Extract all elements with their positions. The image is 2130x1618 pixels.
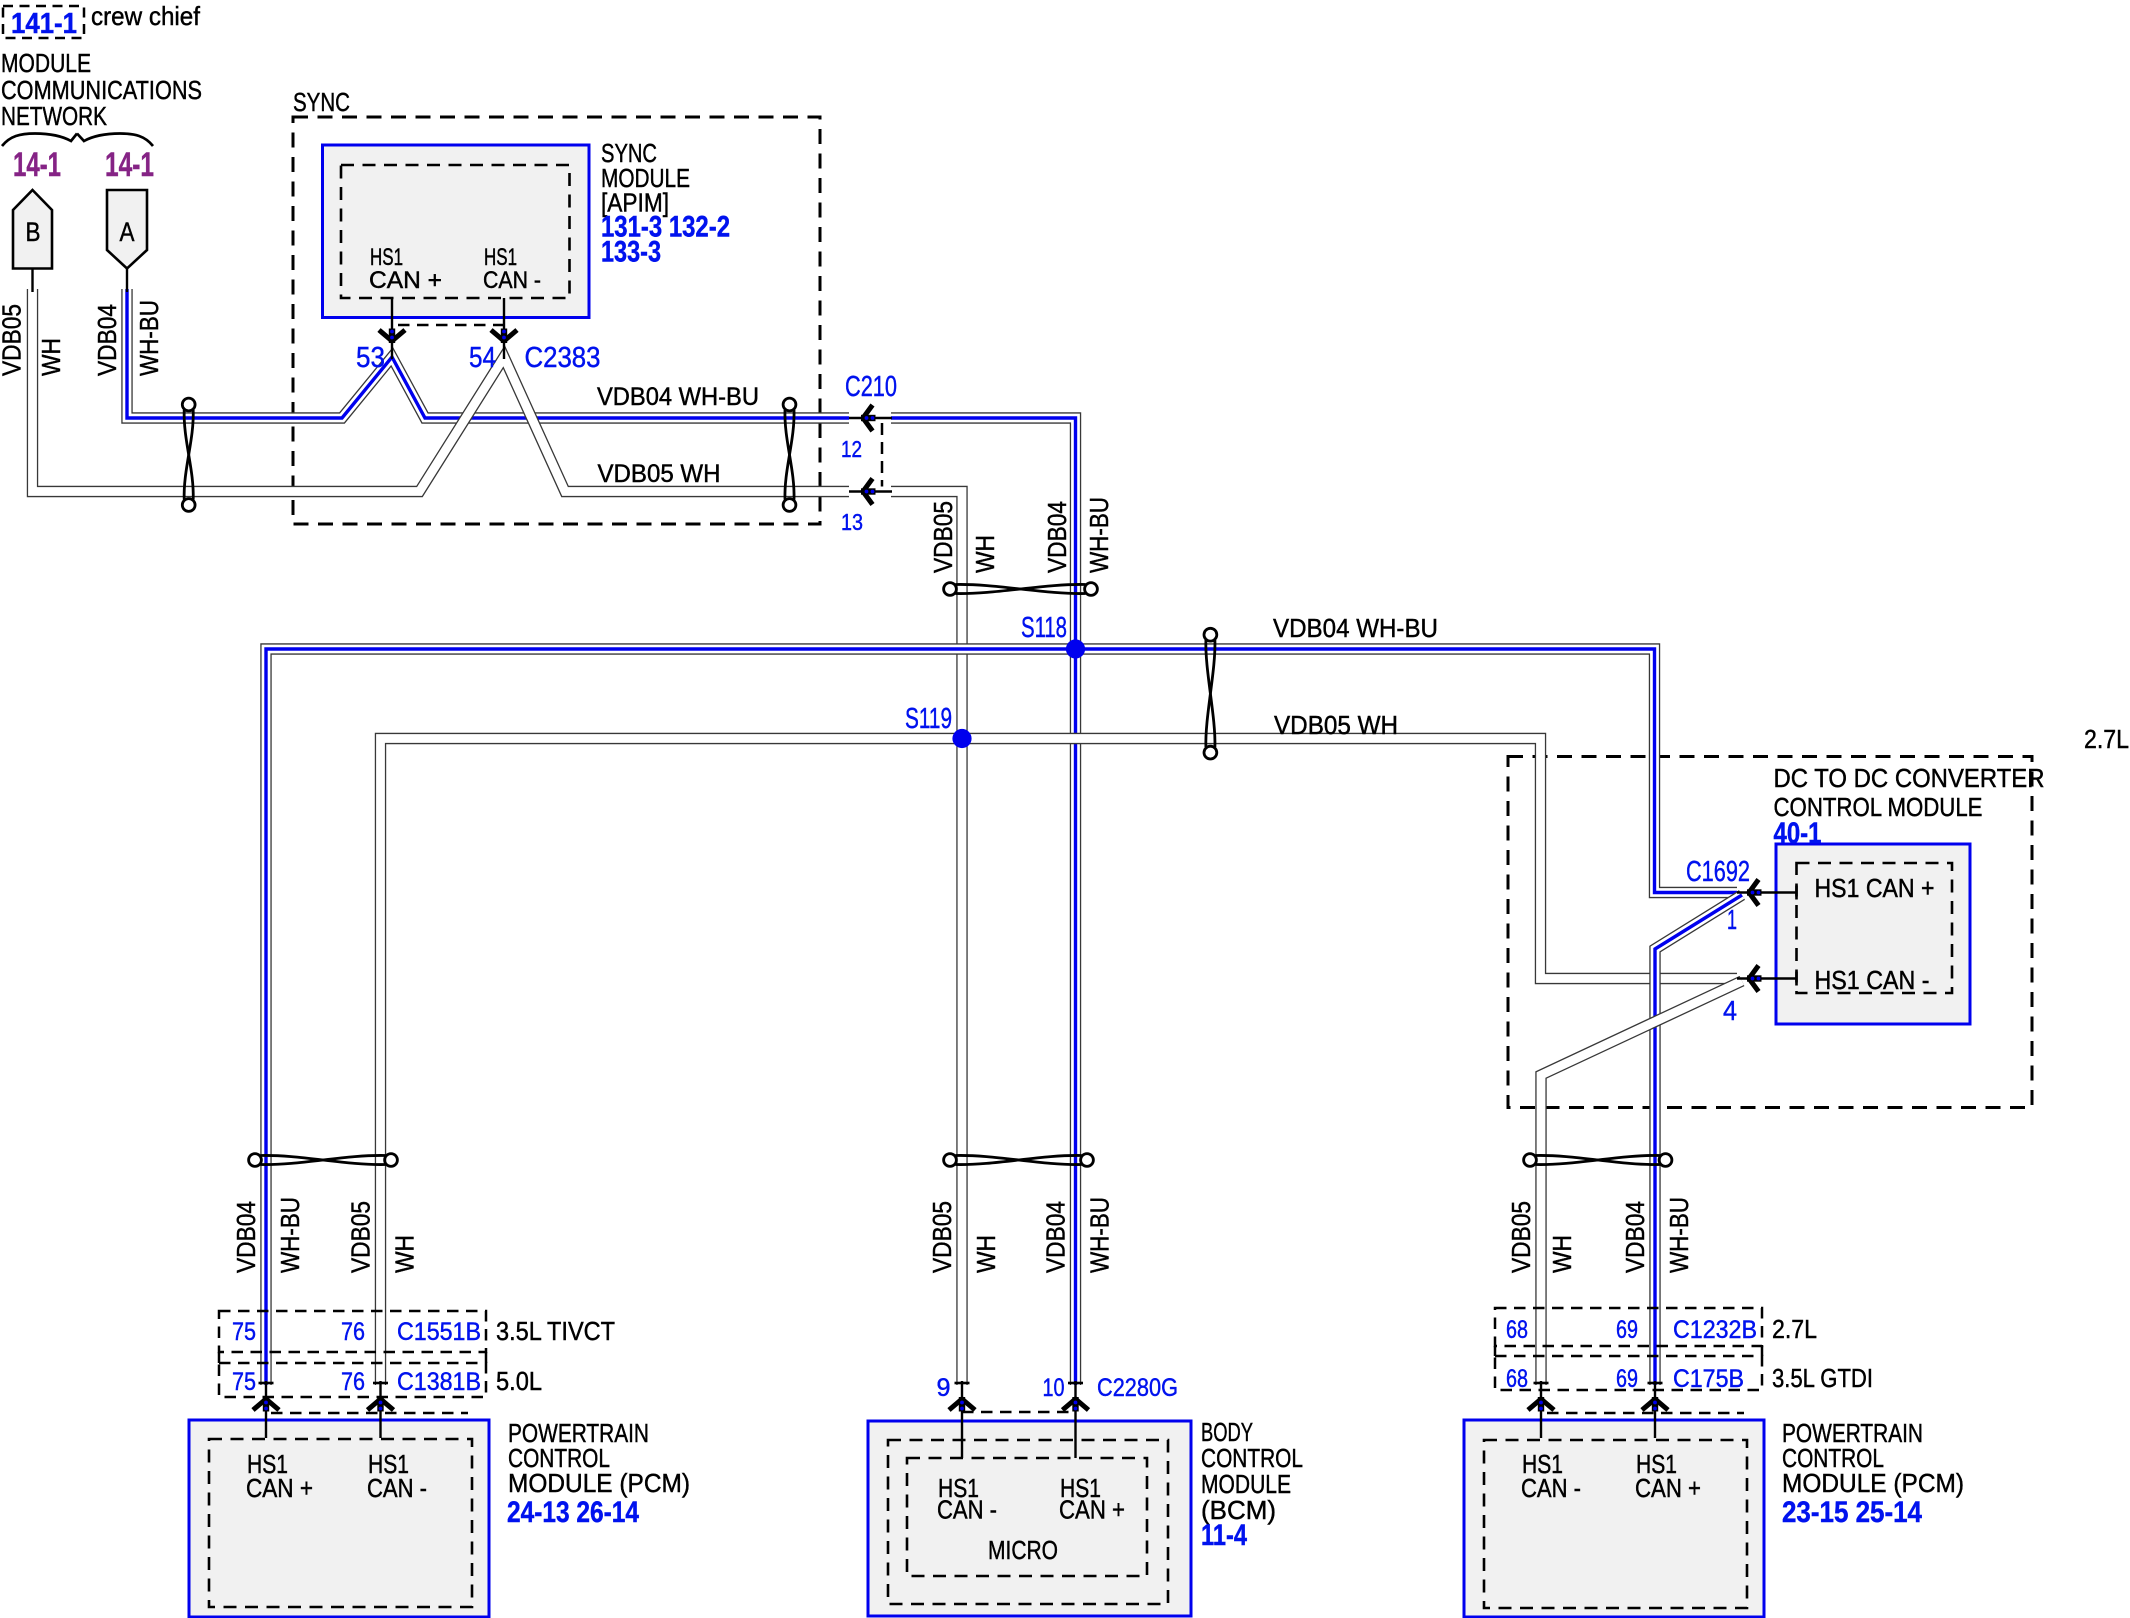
svg-text:WH: WH (971, 1235, 1001, 1273)
C210 pin 13 arrow (861, 479, 876, 505)
svg-text:11-4: 11-4 (1201, 1519, 1247, 1552)
C2383 pin 54 arrow (491, 329, 517, 344)
svg-text:CAN +: CAN + (369, 267, 442, 294)
wire VDB05 WH bus from PCM left pin 76 through S119 to C1692 pin 4 (381, 739, 1738, 1386)
svg-text:68: 68 (1506, 1316, 1528, 1344)
BCM pin 10 arrow (1063, 1397, 1089, 1412)
right joiner between C1551B and C1381B boxes (485, 1352, 488, 1363)
C210 pin 12 arrow (861, 405, 876, 431)
svg-text:WH-BU: WH-BU (1664, 1197, 1694, 1273)
svg-text:24-13 26-14: 24-13 26-14 (507, 1496, 639, 1529)
svg-text:VDB05: VDB05 (928, 501, 958, 573)
splice S119 (952, 729, 971, 748)
PCM right inner dashed box (1484, 1440, 1747, 1608)
PCM left HS1 CAN- pin lead (379, 1381, 381, 1438)
svg-text:WH: WH (36, 338, 66, 376)
PCM right HS1 CAN+ pin lead (1654, 1381, 1656, 1438)
svg-text:13: 13 (841, 509, 863, 535)
PCM left inner dashed box (209, 1439, 472, 1607)
svg-text:75: 75 (232, 1368, 256, 1396)
svg-text:1: 1 (1727, 904, 1737, 935)
svg-text:C2280G: C2280G (1097, 1374, 1178, 1402)
wire VDB04 WH-BU bus from PCM left pin 75 through S118 to C1692 pin 1 (266, 649, 1737, 1385)
connector box C1551B (3.5L TIVCT) (219, 1311, 486, 1352)
svg-text:C1381B: C1381B (397, 1368, 481, 1396)
C210 connector gap on WH-BU wire (849, 411, 891, 426)
svg-text:A: A (120, 217, 135, 247)
PCM left pin 75 arrow (253, 1397, 279, 1412)
svg-text:10: 10 (1043, 1374, 1065, 1402)
brace over network connector A (77, 134, 153, 147)
svg-text:VDB05: VDB05 (927, 1201, 957, 1273)
stub from connector A (126, 267, 128, 292)
svg-text:C1551B: C1551B (397, 1318, 481, 1346)
PCM left pin 76 arrow (368, 1397, 394, 1412)
twisted pair symbol above S118 (944, 583, 1098, 596)
C1692 pin 1 arrow (1747, 880, 1762, 906)
SYNC module inner dashed box (341, 165, 570, 298)
svg-text:3.5L TIVCT: 3.5L TIVCT (496, 1316, 615, 1346)
wire VDB04 WH-BU from C1692 pin 1 down to PCM right pin 69 (1655, 895, 1742, 1385)
SYNC system dashed box (293, 117, 820, 524)
svg-text:2.7L: 2.7L (1772, 1314, 1817, 1344)
PCM left HS1 CAN+ pin lead (265, 1381, 267, 1438)
svg-text:69: 69 (1616, 1316, 1638, 1344)
connector box C1381B (5.0L) (219, 1363, 486, 1397)
BCM pin 9 arrow (949, 1397, 975, 1412)
svg-text:14-1: 14-1 (105, 146, 154, 184)
connector box C1232B (2.7L) (1495, 1308, 1762, 1346)
svg-text:HS1 CAN +: HS1 CAN + (1815, 873, 1935, 903)
2.7L engine dashed box (1508, 757, 2032, 1108)
SYNC module (APIM) box (323, 145, 590, 318)
svg-text:C2383: C2383 (525, 342, 601, 374)
svg-text:MODULE (PCM): MODULE (PCM) (1782, 1468, 1964, 1498)
svg-text:VDB05 WH: VDB05 WH (1274, 710, 1398, 740)
SYNC C2383 connector dashed bracket (398, 324, 504, 327)
network connector A (107, 190, 147, 269)
svg-text:CAN -: CAN - (937, 1495, 997, 1525)
SYNC pin 53 lead (391, 298, 393, 359)
C1692 pin 4 lead (1737, 977, 1797, 979)
svg-text:CAN +: CAN + (246, 1473, 313, 1503)
PCM right pin 68 arrow (1528, 1397, 1554, 1412)
svg-text:VDB04 WH-BU: VDB04 WH-BU (597, 383, 759, 411)
svg-text:133-3: 133-3 (601, 236, 661, 269)
C1692 pin 4 arrow (1747, 966, 1762, 992)
svg-text:NETWORK: NETWORK (1, 101, 108, 131)
svg-text:VDB04: VDB04 (92, 304, 122, 376)
svg-text:14-1: 14-1 (13, 146, 61, 184)
left joiner between C1551B and C1381B boxes (218, 1352, 221, 1363)
svg-text:76: 76 (341, 1368, 365, 1396)
svg-text:75: 75 (232, 1318, 256, 1346)
pin terminal crossbar at x=1655 (1648, 1382, 1663, 1385)
twisted pair symbol before C210 (783, 398, 796, 511)
BCM outer dashed box (888, 1440, 1168, 1604)
svg-text:WH: WH (970, 535, 1000, 573)
svg-text:3.5L GTDI: 3.5L GTDI (1772, 1363, 1873, 1393)
svg-text:40-1: 40-1 (1774, 817, 1822, 850)
svg-text:VDB04 WH-BU: VDB04 WH-BU (1273, 613, 1438, 643)
svg-text:HS1 CAN -: HS1 CAN - (1815, 965, 1930, 995)
svg-text:9: 9 (937, 1374, 951, 1402)
svg-text:68: 68 (1506, 1365, 1528, 1393)
twisted pair symbol left of SYNC (182, 398, 195, 511)
right joiner between C1232B and C175B boxes (1761, 1346, 1764, 1356)
svg-text:MODULE: MODULE (1, 48, 91, 78)
C2383 pin 53 arrow (379, 329, 405, 344)
DC-DC module inner dashed box (1797, 863, 1953, 993)
svg-text:WH-BU: WH-BU (1084, 497, 1114, 573)
svg-text:crew chief: crew chief (91, 1, 201, 31)
svg-text:VDB04: VDB04 (1042, 501, 1072, 573)
svg-text:23-15 25-14: 23-15 25-14 (1782, 1496, 1922, 1529)
PCM right pin 69 arrow (1642, 1397, 1668, 1412)
twisted pair symbol above PCM right (1524, 1154, 1672, 1167)
C210 connector gap on WH wire (849, 484, 891, 499)
svg-text:WH-BU: WH-BU (275, 1197, 305, 1273)
svg-text:CAN -: CAN - (367, 1473, 427, 1503)
network connector B (13, 190, 52, 269)
BCM HS1 CAN+ pin lead (1074, 1381, 1076, 1458)
svg-text:VDB04: VDB04 (231, 1201, 261, 1273)
svg-text:76: 76 (341, 1318, 365, 1346)
svg-text:CAN -: CAN - (1521, 1473, 1581, 1503)
BCM inner dashed MICRO box (907, 1458, 1147, 1576)
DC to DC converter control module box (1776, 844, 1970, 1024)
svg-text:4: 4 (1723, 995, 1737, 1026)
SYNC pin 54 lead (503, 298, 505, 359)
svg-text:MODULE (PCM): MODULE (PCM) (508, 1468, 690, 1498)
C1692 pin 1 lead (1737, 891, 1797, 893)
connector box C175B (3.5L GTDI) (1495, 1356, 1762, 1390)
wire VDB04 WH-BU from connector A via SYNC pin 53 and C210 to BCM pin 10 (127, 289, 1076, 1385)
svg-text:VDB05: VDB05 (1506, 1201, 1536, 1273)
svg-text:S118: S118 (1021, 612, 1067, 644)
svg-text:WH: WH (390, 1235, 420, 1273)
pin terminal crossbar at x=380.5 (373, 1382, 388, 1385)
svg-text:WH-BU: WH-BU (134, 300, 164, 376)
svg-text:54: 54 (469, 342, 496, 374)
pin terminal crossbar at x=962 (955, 1382, 970, 1385)
svg-text:S119: S119 (905, 703, 952, 735)
svg-text:2.7L: 2.7L (2084, 724, 2129, 754)
BCM C2280G connector dashed bracket (962, 1411, 1076, 1414)
twisted pair symbol above PCM left (249, 1154, 398, 1167)
stub from connector B (31, 267, 33, 292)
svg-text:C175B: C175B (1673, 1365, 1744, 1393)
svg-text:C1692: C1692 (1686, 856, 1750, 888)
dashed reference box 141-1 (3, 6, 84, 38)
svg-text:DC TO DC CONVERTER: DC TO DC CONVERTER (1774, 763, 2045, 793)
PCM right HS1 CAN- pin lead (1540, 1381, 1542, 1438)
svg-text:53: 53 (356, 342, 385, 374)
brace over network connector B (2, 134, 77, 147)
svg-text:5.0L: 5.0L (496, 1366, 542, 1396)
svg-text:CAN -: CAN - (483, 267, 541, 294)
wire VDB05 WH from C1692 pin 4 down to PCM right pin 68 (1541, 981, 1742, 1385)
svg-text:VDB04: VDB04 (1041, 1201, 1071, 1273)
powertrain control module PCM left box (189, 1420, 489, 1617)
BCM HS1 CAN- pin lead (961, 1381, 963, 1458)
svg-text:VDB05: VDB05 (0, 304, 27, 376)
left joiner between C1232B and C175B boxes (1494, 1346, 1497, 1356)
pin terminal crossbar at x=266 (259, 1382, 274, 1385)
svg-text:12: 12 (841, 436, 862, 462)
svg-text:MICRO: MICRO (988, 1535, 1058, 1565)
PCM right connector dashed bracket (1547, 1412, 1744, 1415)
twisted pair symbol right of S118 (1204, 628, 1217, 759)
wire VDB05 WH from connector B via SYNC pin 54 and C210 to BCM pin 9 (33, 289, 963, 1385)
svg-text:C210: C210 (845, 371, 897, 403)
svg-text:SYNC: SYNC (293, 87, 350, 117)
pin terminal crossbar at x=1541 (1534, 1382, 1549, 1385)
svg-text:B: B (26, 217, 41, 247)
splice S118 (1066, 639, 1085, 658)
svg-text:VDB04: VDB04 (1620, 1201, 1650, 1273)
PCM left connector dashed bracket (271, 1412, 468, 1415)
svg-text:VDB05 WH: VDB05 WH (598, 460, 721, 488)
svg-text:CAN +: CAN + (1059, 1495, 1125, 1525)
svg-text:WH: WH (1547, 1235, 1577, 1273)
body control module BCM box (868, 1421, 1191, 1616)
svg-text:69: 69 (1616, 1365, 1638, 1393)
C210 connector dashed separator (881, 423, 884, 487)
twisted pair symbol above BCM (944, 1154, 1094, 1167)
svg-text:WH-BU: WH-BU (1085, 1197, 1115, 1273)
pin terminal crossbar at x=1075.5 (1068, 1382, 1083, 1385)
svg-text:VDB05: VDB05 (346, 1201, 376, 1273)
svg-text:C1232B: C1232B (1673, 1316, 1757, 1344)
powertrain control module PCM right box (1464, 1420, 1764, 1617)
svg-text:141-1: 141-1 (11, 8, 77, 40)
svg-text:CAN +: CAN + (1635, 1473, 1701, 1503)
